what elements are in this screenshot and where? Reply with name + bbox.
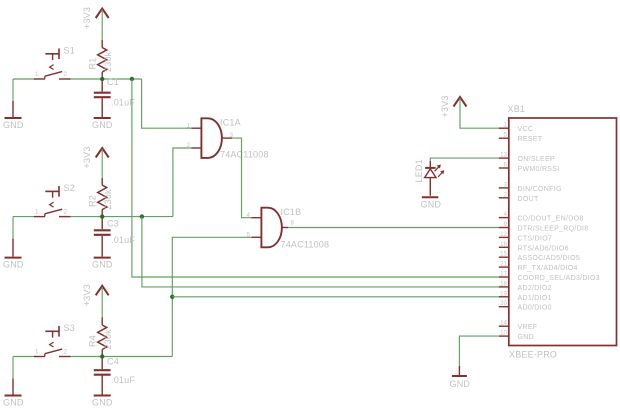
pin 10 GND [499, 330, 534, 342]
svg-text:AD0/DIO0: AD0/DIO0 [518, 305, 552, 312]
svg-text:GND: GND [518, 334, 534, 341]
svg-text:S3: S3 [64, 323, 75, 333]
wire row1 branch down to pin17 wire [132, 79, 499, 277]
svg-text:2: 2 [64, 348, 68, 355]
wire +3V3 to R2 [101, 149, 103, 178]
ground row2 left [3, 217, 24, 270]
svg-text:15: 15 [500, 251, 507, 258]
pin 20 AD0/DIO0 [499, 300, 552, 312]
svg-text:12: 12 [500, 231, 507, 238]
svg-text:S2: S2 [64, 183, 75, 193]
svg-text:74AC11008: 74AC11008 [281, 240, 330, 250]
wire row3 up to IC1B pin5 [172, 237, 251, 356]
pin 6 PWM0/RSSI [499, 162, 560, 174]
wire row2 left segment [13, 216, 36, 218]
svg-text:13: 13 [500, 152, 507, 159]
svg-text:+3V3: +3V3 [82, 146, 92, 168]
ground row1 left [3, 79, 24, 130]
ground under C4 [92, 396, 113, 408]
svg-text:IC1A: IC1A [220, 118, 241, 128]
svg-text:17: 17 [500, 271, 507, 278]
svg-text:74AC11008: 74AC11008 [220, 150, 269, 160]
svg-text:PWM0/RSSI: PWM0/RSSI [518, 166, 560, 173]
svg-text:3: 3 [504, 181, 508, 188]
ground under C1 [92, 118, 113, 130]
wire pin10 to ground [459, 336, 498, 366]
ground under LED1 [421, 197, 442, 209]
svg-text:XB1: XB1 [508, 104, 526, 114]
wire +3V3 to VCC pin1 [460, 98, 499, 128]
svg-text:230k: 230k [103, 329, 113, 350]
pin 21 RF_TX/AD4/DIO4 [499, 261, 578, 273]
svg-text:4: 4 [504, 211, 508, 218]
wire row2 right segment [69, 216, 173, 218]
svg-text:C3: C3 [107, 219, 119, 229]
power +3V3 row2 [82, 146, 109, 168]
ground under C3 [92, 258, 113, 270]
svg-text:DIN/CONFIG: DIN/CONFIG [518, 186, 562, 193]
wire row2 branch down to pin18 wire [142, 217, 499, 287]
wire IC1B out to XB1 pin9 [288, 227, 499, 229]
pin 13 ON/SLEEP [499, 152, 555, 164]
pin 9 DTR/SLEEP_RQ/DI8 [499, 221, 589, 233]
wire row1 to IC1A pin1 [142, 79, 192, 128]
svg-text:6: 6 [504, 162, 508, 169]
svg-text:1: 1 [187, 122, 191, 129]
svg-text:R4: R4 [88, 335, 98, 347]
svg-text:.01uF: .01uF [111, 375, 135, 385]
svg-text:230k: 230k [103, 51, 113, 72]
wire +3V3 to R4 [101, 287, 103, 318]
pin 12 CTS/DIO7 [499, 231, 552, 243]
svg-text:CD/DOUT_EN/DO8: CD/DOUT_EN/DO8 [518, 216, 584, 223]
svg-text:VCC: VCC [518, 126, 534, 133]
capacitor C3 [94, 217, 136, 257]
resistor R2 [88, 178, 114, 217]
svg-text:5: 5 [504, 132, 508, 139]
op-amp gate IC1B [247, 207, 330, 250]
svg-text:AD1/DIO1: AD1/DIO1 [518, 295, 552, 302]
XBee module XB1 [508, 104, 617, 359]
svg-text:16: 16 [500, 241, 507, 248]
svg-text:LED1: LED1 [414, 159, 424, 182]
ground at XB1 [450, 366, 471, 389]
node row3 R4-C4 junction [100, 354, 104, 358]
pin 1 VCC [499, 122, 533, 134]
svg-text:14: 14 [500, 320, 507, 327]
svg-text:1: 1 [504, 122, 508, 129]
svg-text:4: 4 [247, 212, 251, 219]
svg-text:20: 20 [500, 300, 507, 307]
svg-text:GND: GND [92, 259, 113, 269]
capacitor C1 [94, 77, 136, 117]
svg-text:230k: 230k [103, 189, 113, 210]
svg-text:ASSOC/AD5/DIO5: ASSOC/AD5/DIO5 [518, 255, 581, 262]
svg-text:10: 10 [500, 330, 507, 337]
svg-text:AD2/DIO2: AD2/DIO2 [518, 285, 552, 292]
svg-text:RESET: RESET [518, 136, 543, 143]
node row2 R2-C3 junction [100, 214, 104, 218]
LED LED1 [414, 159, 445, 196]
pin 3 DIN/CONFIG [499, 181, 562, 193]
svg-text:2: 2 [504, 191, 508, 198]
pin 16 RTS/AD6/DIO6 [499, 241, 569, 253]
svg-text:ON/SLEEP: ON/SLEEP [518, 156, 555, 163]
switch S3 [34, 323, 75, 357]
svg-text:+3V3: +3V3 [82, 7, 92, 29]
svg-text:1: 1 [35, 208, 39, 215]
wire row3 right segment [69, 356, 172, 358]
svg-text:DOUT: DOUT [518, 196, 539, 203]
wire +3V3 to R1 [101, 10, 103, 41]
pin 19 AD1/DIO1 [499, 290, 552, 302]
svg-text:5: 5 [247, 232, 251, 239]
svg-text:GND: GND [3, 259, 24, 269]
svg-text:8: 8 [291, 219, 295, 226]
svg-text:1: 1 [35, 348, 39, 355]
capacitor C4 [94, 357, 136, 395]
svg-text:R2: R2 [88, 195, 98, 207]
wire row3 branch to pin19 [172, 296, 499, 298]
svg-text:.01uF: .01uF [111, 235, 135, 245]
switch S2 [34, 183, 75, 217]
node row2 branch junction [140, 214, 144, 218]
svg-text:GND: GND [421, 200, 442, 210]
pin 15 ASSOC/AD5/DIO5 [499, 251, 580, 263]
svg-text:R1: R1 [88, 58, 98, 70]
svg-text:2: 2 [64, 208, 68, 215]
pin 4 CD/DOUT_EN/DO8 [499, 211, 584, 223]
node row1 R1-C1 junction [100, 77, 104, 81]
svg-text:9: 9 [504, 221, 508, 228]
pin 18 AD2/DIO2 [499, 280, 552, 292]
svg-text:RF_TX/AD4/DIO4: RF_TX/AD4/DIO4 [518, 265, 578, 272]
svg-text:18: 18 [500, 280, 507, 287]
svg-text:+3V3: +3V3 [440, 95, 450, 117]
svg-text:GND: GND [92, 397, 113, 407]
svg-text:C4: C4 [107, 357, 119, 367]
power +3V3 row1 [82, 7, 109, 29]
svg-text:GND: GND [450, 379, 471, 389]
svg-text:S1: S1 [64, 46, 75, 56]
wire row1 right segment [69, 78, 142, 80]
svg-text:IC1B: IC1B [281, 207, 302, 217]
pin 2 DOUT [499, 191, 539, 203]
pin 17 COORD_SEL/AD3/DIO3 [499, 271, 600, 283]
svg-text:21: 21 [500, 261, 507, 268]
svg-text:19: 19 [500, 290, 507, 297]
svg-text:2: 2 [64, 71, 68, 78]
wire row1 left segment [13, 78, 36, 80]
pin 5 RESET [499, 132, 543, 144]
wire row2 up to IC1A pin2 [173, 148, 192, 217]
resistor R4 [88, 318, 114, 357]
pin 14 VREF [499, 320, 538, 332]
svg-text:RTS/AD6/DIO6: RTS/AD6/DIO6 [518, 245, 569, 252]
svg-text:GND: GND [3, 120, 24, 130]
op-amp gate IC1A [187, 118, 269, 160]
power +3V3 row3 [82, 284, 109, 306]
resistor R1 [88, 40, 114, 79]
svg-text:DTR/SLEEP_RQ/DI8: DTR/SLEEP_RQ/DI8 [518, 226, 589, 233]
svg-text:GND: GND [3, 397, 24, 407]
svg-text:2: 2 [187, 142, 191, 149]
node row3 branch junction [170, 295, 174, 299]
svg-text:VREF: VREF [518, 324, 538, 331]
svg-text:GND: GND [92, 120, 113, 130]
power +3V3 at XB1 [440, 95, 467, 117]
svg-text:C1: C1 [107, 77, 119, 87]
svg-text:COORD_SEL/AD3/DIO3: COORD_SEL/AD3/DIO3 [518, 275, 600, 282]
svg-text:XBEE-PRO: XBEE-PRO [509, 350, 557, 360]
wire IC1A out to IC1B pin4 [232, 138, 251, 218]
wire row3 left segment [13, 356, 36, 358]
svg-text:CTS/DIO7: CTS/DIO7 [518, 235, 553, 242]
svg-text:+3V3: +3V3 [82, 284, 92, 306]
svg-text:1: 1 [35, 71, 39, 78]
wire pin13 to LED1 [430, 158, 499, 162]
node row1 branch junction [130, 77, 134, 81]
switch S1 [34, 46, 75, 80]
ground row3 left [3, 357, 24, 408]
